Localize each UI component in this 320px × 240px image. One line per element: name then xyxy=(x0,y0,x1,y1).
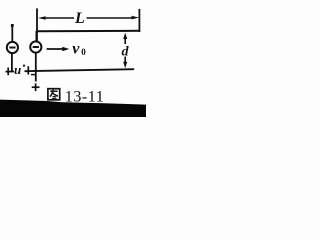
caption character 图 (drawn) xyxy=(48,89,60,100)
blob at top of left lead xyxy=(11,24,14,27)
svg-text:v: v xyxy=(72,40,80,57)
wire: right source top lead (joins left end-bar) xyxy=(35,31,37,42)
wire: left source bottom lead xyxy=(11,53,13,72)
source (circled minus) left xyxy=(7,42,18,53)
dimension line L right segment with arrowhead xyxy=(87,17,135,19)
bottom plate (right long segment) xyxy=(25,69,135,71)
dimension d upper arrow xyxy=(123,33,127,39)
dimension line L left segment with arrowhead xyxy=(38,16,46,20)
wire: right source bottom lead crossing the bottom wire xyxy=(35,53,37,81)
background xyxy=(0,0,146,117)
terminal tick right of label u xyxy=(27,66,29,74)
bottom plate (left wire segment before label u) xyxy=(6,71,15,73)
svg-text:u: u xyxy=(14,62,21,77)
top plate xyxy=(36,30,140,32)
scan border black bar at bottom xyxy=(0,100,146,117)
small stub below wire near right source lead xyxy=(31,74,36,76)
plus polarity mark xyxy=(32,86,40,88)
wire: left source top lead xyxy=(11,25,13,43)
svg-text:0: 0 xyxy=(81,47,86,57)
dimension d lower arrow xyxy=(124,57,126,64)
wire right end-bar of L dimension xyxy=(138,9,140,32)
svg-text:L: L xyxy=(74,10,85,27)
source (circled minus) right xyxy=(30,41,41,52)
terminal tick left of label u xyxy=(7,68,9,76)
v0 velocity arrow xyxy=(47,48,64,50)
wire left end-bar of L dimension / lead from top plate down to source xyxy=(36,8,38,41)
